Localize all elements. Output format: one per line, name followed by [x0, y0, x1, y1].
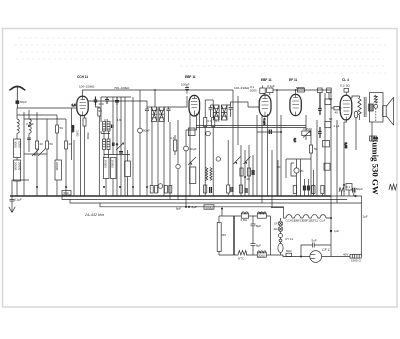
resistor	[204, 185, 207, 193]
wire	[277, 160, 279, 196]
wire	[16, 108, 18, 119]
capacitor 20pF	[115, 97, 119, 105]
wire	[71, 108, 73, 160]
resistor	[293, 186, 296, 194]
wire osc top	[101, 96, 131, 98]
svg-text:20: 20	[69, 142, 73, 146]
wire	[96, 105, 100, 196]
svg-text:0,1: 0,1	[208, 119, 213, 123]
svg-text:CL4: CL4	[320, 219, 326, 223]
svg-text:5nF: 5nF	[312, 239, 317, 243]
PSU left rail	[218, 216, 220, 255]
wire	[17, 114, 57, 116]
capacitor 8uF	[251, 224, 256, 244]
wire	[28, 110, 30, 140]
wire	[20, 51, 380, 53]
junction	[65, 186, 67, 188]
wire	[280, 115, 282, 196]
resistor	[286, 253, 292, 256]
svg-text:50: 50	[314, 147, 318, 151]
wire	[124, 97, 126, 196]
svg-text:0,1µF: 0,1µF	[26, 122, 34, 126]
dial bus line A	[196, 125, 306, 127]
wire	[12, 179, 29, 181]
capacitor pad2	[113, 143, 115, 147]
pole circle	[374, 104, 378, 108]
coil L1	[17, 119, 19, 133]
wire CL4 anode	[351, 96, 360, 98]
svg-text:50Ω: 50Ω	[286, 249, 292, 253]
svg-text:CF 1: CF 1	[322, 248, 330, 252]
electrolytic	[354, 111, 358, 118]
wire	[157, 122, 159, 194]
junction	[28, 125, 30, 127]
wire	[23, 112, 25, 196]
wire	[65, 119, 67, 141]
capacitor dark	[318, 127, 321, 138]
resistor zigzag WA	[206, 168, 208, 181]
bus line 4	[100, 203, 284, 207]
svg-text:3000: 3000	[14, 141, 18, 148]
junction	[343, 184, 345, 186]
fuse 4ohm	[278, 227, 283, 232]
svg-text:20: 20	[300, 169, 304, 173]
NTC resistor	[238, 251, 247, 256]
osc coil winding 1a	[103, 122, 106, 132]
resistor zigzag WV	[210, 168, 212, 181]
coil bracket	[291, 163, 296, 176]
svg-text:24–432 kHz: 24–432 kHz	[84, 213, 104, 217]
resistor grid CL4	[334, 107, 339, 110]
resistor	[318, 88, 323, 93]
wire	[36, 149, 38, 196]
capacitor dark	[210, 187, 212, 193]
heater chain wire	[284, 213, 332, 218]
resistor 50000	[298, 88, 305, 92]
wire	[328, 93, 330, 99]
bus line 3	[70, 200, 362, 204]
wire EF11 top	[295, 90, 297, 94]
svg-text:50: 50	[60, 126, 64, 130]
wire ECH11 anode to IFT1	[89, 101, 148, 107]
osc coil winding 2a	[103, 139, 106, 150]
wire	[106, 179, 113, 197]
resistor 500	[62, 191, 71, 196]
wire	[261, 115, 263, 203]
wire	[305, 115, 307, 140]
wire	[73, 140, 75, 196]
IF transformer 2 secondary	[221, 105, 227, 120]
wire	[16, 58, 384, 60]
wire	[199, 111, 201, 196]
coil can 20000	[14, 160, 21, 181]
fuse 1F	[278, 221, 283, 226]
capacitor dark	[269, 130, 271, 135]
speaker magnet	[383, 106, 387, 117]
junction	[119, 186, 121, 188]
resistor	[239, 185, 242, 193]
wire	[139, 133, 141, 196]
wire	[330, 90, 332, 196]
svg-text:50: 50	[329, 97, 333, 101]
svg-text:0,1: 0,1	[170, 136, 175, 140]
capacitor box 0.1uF	[346, 184, 352, 191]
electrolytic	[176, 164, 180, 168]
wire audio coupling	[257, 131, 281, 133]
junction	[36, 186, 38, 188]
resistor	[46, 141, 49, 149]
svg-text:100–330kΩ: 100–330kΩ	[234, 86, 250, 90]
tube ECH11	[77, 96, 88, 115]
coil can 20000b	[55, 160, 62, 180]
junction	[103, 186, 105, 188]
antenna	[9, 87, 25, 101]
junction	[295, 89, 297, 91]
capacitor	[119, 152, 123, 154]
svg-text:3,9: 3,9	[104, 118, 109, 122]
resistor	[327, 88, 332, 93]
wire	[252, 216, 254, 224]
wire	[371, 122, 373, 136]
svg-text:2000: 2000	[258, 253, 265, 257]
wire	[375, 108, 377, 122]
resistor	[36, 141, 39, 149]
svg-text:UY 11: UY 11	[285, 237, 293, 241]
wire	[244, 150, 246, 196]
choke 6.8ohm	[241, 212, 248, 218]
svg-text:50pF: 50pF	[20, 100, 27, 104]
wire	[18, 37, 382, 39]
osc coil winding 2b	[107, 139, 110, 150]
wire	[304, 179, 308, 196]
wire	[14, 44, 386, 46]
PSU right rail	[270, 216, 272, 255]
capacitor C-ant 50pF	[16, 100, 20, 108]
capacitor	[209, 105, 213, 117]
junction	[280, 131, 282, 133]
wire IFT2 to detector	[231, 102, 259, 107]
wire ECH11 cathode	[81, 116, 85, 196]
heater EBF11b	[303, 215, 309, 218]
wire	[205, 99, 213, 101]
output transformer primary	[358, 96, 361, 120]
svg-text:100pF: 100pF	[181, 83, 190, 87]
wire	[330, 196, 332, 257]
svg-text:3,05: 3,05	[344, 143, 348, 149]
field coil	[374, 95, 377, 103]
junction	[132, 186, 134, 188]
wire	[360, 203, 362, 256]
svg-text:EBF 11: EBF 11	[261, 78, 272, 82]
heater EF11	[312, 215, 318, 218]
resistor 1500ohm	[350, 254, 361, 258]
wire	[212, 100, 214, 196]
capacitor	[27, 138, 31, 152]
wire	[120, 97, 122, 196]
svg-text:0,5MΩ: 0,5MΩ	[303, 127, 313, 131]
wire	[204, 100, 206, 196]
electrolytic 4uF	[158, 184, 163, 189]
junction	[330, 230, 332, 232]
svg-text:0,1µF: 0,1µF	[14, 198, 22, 202]
svg-text:20000: 20000	[55, 162, 59, 171]
electrolytic	[294, 168, 299, 173]
svg-text:0,1: 0,1	[216, 119, 221, 123]
wire	[104, 131, 109, 158]
capacitor dark 50uF	[353, 188, 355, 193]
tube EBF11	[189, 95, 200, 116]
svg-text:u50: u50	[221, 233, 226, 237]
wire	[336, 120, 338, 203]
svg-text:8µF: 8µF	[256, 224, 261, 228]
wire	[56, 115, 58, 125]
wire	[185, 151, 187, 207]
svg-text:20: 20	[40, 142, 44, 146]
tube CL4	[340, 95, 352, 120]
electrolytic 2uF	[206, 131, 211, 136]
wire	[163, 122, 165, 197]
junction	[146, 186, 148, 188]
svg-text:780Ω: 780Ω	[258, 211, 266, 215]
capacitor dark	[252, 170, 254, 175]
speaker frame	[370, 93, 384, 123]
resistor	[247, 168, 250, 176]
wire	[297, 159, 301, 196]
junction	[154, 89, 156, 91]
capacitor 10pF	[105, 97, 109, 104]
capacitor	[167, 107, 171, 118]
capacitor grid	[94, 97, 97, 106]
wire	[252, 155, 254, 196]
svg-text:3,9: 3,9	[117, 118, 122, 122]
coil can 20000c	[103, 158, 109, 179]
wire chain feed	[271, 208, 284, 214]
svg-text:50: 50	[329, 117, 333, 121]
resistor zigzag	[389, 184, 397, 190]
capacitor CL4 top cap	[344, 89, 349, 95]
junction	[185, 206, 187, 208]
IF transformer 1 secondary	[159, 107, 165, 122]
wire	[84, 126, 86, 196]
wire	[271, 150, 273, 208]
wire	[186, 114, 197, 147]
svg-text:50µF: 50µF	[143, 129, 150, 133]
svg-text:8µF: 8µF	[192, 205, 197, 209]
svg-text:0,1: 0,1	[346, 185, 351, 189]
heater EBF11	[295, 215, 301, 218]
svg-text:8µF: 8µF	[176, 207, 181, 211]
wire	[112, 97, 114, 155]
wire	[322, 256, 350, 258]
resistor	[240, 168, 243, 176]
wire osc mid bracket	[101, 131, 130, 155]
dropper resistor U50	[217, 223, 221, 252]
wire	[316, 120, 318, 196]
svg-text:100: 100	[99, 102, 104, 106]
heater CL4	[320, 215, 326, 218]
band switch S1	[32, 149, 45, 156]
svg-text:6,8Ω: 6,8Ω	[241, 218, 248, 222]
wire	[151, 122, 153, 187]
resistor	[212, 118, 215, 127]
wire	[248, 145, 250, 196]
wire	[180, 65, 386, 67]
potentiometer 0.5M	[302, 131, 311, 138]
svg-text:1000: 1000	[18, 141, 22, 148]
comb top wire	[286, 158, 311, 160]
wire	[127, 150, 129, 196]
capacitor pad	[112, 125, 114, 129]
resistor	[155, 186, 158, 194]
rectifier UY11	[278, 243, 283, 252]
svg-text:NTC: NTC	[238, 257, 245, 261]
resistor	[65, 141, 68, 149]
svg-text:700Ω: 700Ω	[86, 132, 90, 140]
wire	[16, 158, 18, 197]
heavy dropper	[233, 216, 235, 255]
capacitor 5nF	[313, 243, 319, 248]
svg-text:20000: 20000	[110, 160, 114, 169]
wire	[324, 93, 326, 196]
capacitor	[145, 107, 149, 118]
lamp	[279, 234, 283, 238]
svg-text:3,9Ω: 3,9Ω	[76, 130, 80, 137]
wire	[65, 149, 67, 196]
coil can 3000b	[190, 167, 196, 184]
coil can small	[125, 161, 131, 177]
resistor	[321, 186, 324, 194]
tube EF11	[290, 94, 301, 115]
capacitor dark	[245, 188, 247, 193]
resistor	[169, 186, 172, 194]
svg-text:50µF: 50µF	[190, 147, 197, 151]
junction	[354, 195, 356, 197]
right column small parts	[323, 99, 331, 170]
svg-text:2 µF: 2 µF	[334, 124, 340, 128]
heater CCH11	[286, 215, 292, 218]
svg-text:EF 11: EF 11	[289, 78, 298, 82]
osc coil winding 1b	[107, 122, 110, 132]
wire antenna to ECH11	[17, 107, 77, 109]
wire	[24, 153, 47, 155]
wire	[16, 133, 18, 139]
svg-text:40: 40	[335, 111, 339, 115]
svg-text:50: 50	[50, 142, 54, 146]
svg-text:500Ω: 500Ω	[206, 205, 214, 209]
mains lead	[283, 255, 310, 257]
wire ECH11 top to AVC	[83, 90, 87, 96]
svg-text:8µF: 8µF	[256, 244, 261, 248]
wire	[46, 119, 48, 141]
resistor	[204, 118, 207, 127]
svg-text:50µF: 50µF	[356, 187, 363, 191]
bypass loop	[301, 245, 331, 257]
svg-text:20000: 20000	[103, 160, 107, 169]
svg-text:0,3: 0,3	[293, 138, 297, 143]
electrolytic 50uF	[184, 146, 189, 151]
resistor zigzag small	[339, 188, 344, 192]
svg-text:4 mA: 4 mA	[263, 118, 267, 125]
svg-text:100–150kΩ: 100–150kΩ	[79, 85, 95, 89]
wire	[276, 90, 278, 196]
wire IFT1 out to EBF11 grid	[164, 96, 187, 107]
wire	[56, 180, 58, 196]
wire	[237, 96, 239, 145]
wire	[342, 190, 354, 196]
resistor	[312, 186, 315, 194]
svg-text:0,1µF: 0,1µF	[267, 84, 275, 88]
capacitor dark	[308, 186, 310, 191]
capacitor block	[370, 136, 377, 141]
wire	[146, 118, 148, 196]
wire	[240, 145, 242, 196]
capacitor 0.1uF	[260, 86, 265, 94]
wire	[36, 112, 38, 141]
svg-text:EBF 11: EBF 11	[185, 75, 196, 79]
junction	[116, 143, 118, 145]
capacitor 8uF b	[251, 244, 256, 256]
svg-text:CL 4: CL 4	[342, 78, 349, 82]
resistor	[164, 186, 167, 194]
svg-text:20000: 20000	[18, 162, 22, 171]
resistor	[98, 108, 101, 116]
resistor	[56, 125, 59, 133]
wire	[300, 72, 388, 74]
PSU top rail	[219, 215, 271, 217]
svg-text:0,1/ 5Ω: 0,1/ 5Ω	[340, 84, 351, 88]
coil can 3000	[14, 139, 21, 158]
svg-text:20: 20	[247, 177, 251, 181]
wire	[11, 180, 13, 196]
svg-text:20000: 20000	[14, 162, 18, 171]
svg-text:1F: 1F	[274, 222, 278, 226]
choke 780	[257, 212, 266, 218]
coil can 20000d	[110, 158, 116, 179]
wire	[331, 107, 341, 109]
wire	[313, 170, 322, 196]
mains plug CF1	[310, 251, 322, 263]
band switch S2b	[188, 157, 196, 165]
junction	[188, 206, 190, 208]
ground	[9, 206, 15, 213]
wire	[24, 118, 66, 120]
small circle	[279, 239, 282, 242]
capacitor dark	[231, 187, 233, 192]
wire	[285, 159, 287, 178]
svg-text:700–100kΩ: 700–100kΩ	[114, 86, 130, 90]
output transformer core	[364, 97, 366, 117]
wire	[280, 218, 282, 255]
AVC line	[86, 90, 233, 196]
capacitor 0.1uF	[10, 196, 15, 206]
tube EBF11 det	[259, 95, 271, 116]
capacitor box 0.1uF	[188, 128, 195, 136]
bus line 1b	[331, 196, 362, 203]
coil L2	[29, 119, 31, 133]
band switch S3	[234, 157, 251, 165]
junction	[186, 89, 188, 91]
wire	[256, 115, 258, 196]
svg-text:Eumig 530 GW: Eumig 530 GW	[371, 137, 381, 195]
wire riser to PSU	[221, 209, 223, 217]
PSU bottom rail	[219, 254, 283, 256]
capacitor dark	[318, 93, 321, 115]
resistor	[309, 145, 312, 153]
svg-text:500: 500	[64, 191, 69, 195]
wire	[116, 97, 118, 196]
svg-text:2µF: 2µF	[363, 215, 368, 219]
svg-text:20: 20	[277, 165, 281, 169]
